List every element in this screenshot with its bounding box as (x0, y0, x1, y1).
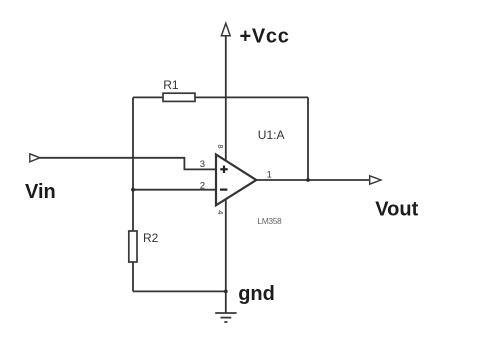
op-amp + input symbol (220, 166, 227, 173)
resistor R2 body (129, 231, 137, 262)
svg-text:Vin: Vin (25, 181, 56, 203)
wire: R1 left lead from left vertical (133, 96, 163, 98)
wire: inverting input (pin 2) from feedback node (133, 189, 216, 191)
node: output junction (306, 178, 310, 182)
svg-text:1: 1 (267, 170, 272, 180)
wire: right vertical feedback from R1 to output node (307, 97, 309, 180)
svg-text:gnd: gnd (238, 283, 275, 305)
wire: ground stub (225, 291, 227, 313)
svg-text:3: 3 (200, 159, 205, 170)
svg-text:R2: R2 (143, 231, 159, 245)
svg-text:Vout: Vout (375, 199, 418, 221)
svg-text:R1: R1 (163, 78, 179, 92)
op-amp U1 triangle (216, 155, 256, 206)
svg-text:8: 8 (216, 144, 225, 148)
svg-text:2: 2 (200, 180, 205, 191)
svg-text:4: 4 (216, 210, 225, 214)
wire: op-amp pin 4 down to ground rail (225, 199, 227, 292)
svg-text:U1:A: U1:A (258, 128, 285, 142)
resistor R1 body (163, 93, 195, 101)
wire: R2 bottom lead to ground rail (132, 262, 134, 291)
input terminal arrow (Vin) (30, 154, 40, 162)
op-amp - input symbol (220, 189, 228, 191)
power terminal +Vcc arrow (221, 23, 230, 36)
ground symbol (215, 313, 236, 322)
node: ground junction (224, 290, 228, 294)
wire: R1 right lead to right vertical (195, 96, 308, 98)
wire: left feedback vertical (R1 to R2) (132, 97, 134, 231)
wire: op-amp output (pin 1) to Vout (256, 179, 370, 181)
svg-text:LM358: LM358 (257, 216, 282, 226)
wire: +Vcc vertical down to op-amp pin 8 (225, 36, 227, 162)
svg-text:+Vcc: +Vcc (240, 26, 290, 48)
output terminal arrow (Vout) (370, 176, 381, 184)
wire: bottom ground rail (133, 290, 226, 292)
wire: Vin to op-amp + input (pin 3) with step (40, 158, 216, 170)
node: feedback junction at inverting input (131, 188, 135, 192)
